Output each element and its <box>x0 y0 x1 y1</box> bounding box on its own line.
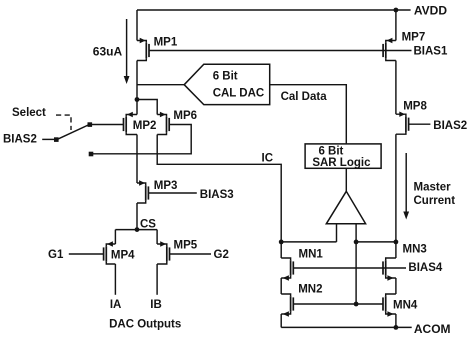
label G2 <box>214 249 229 261</box>
transistor MN1 <box>281 258 293 281</box>
svg-text:BIAS1: BIAS1 <box>414 46 448 58</box>
wire CS to MP5 source <box>156 230 158 244</box>
label Cal Data <box>281 91 328 103</box>
svg-text:CAL DAC: CAL DAC <box>213 87 265 99</box>
node MN2/MN4 gate junction <box>354 302 359 307</box>
wire IB output <box>156 264 158 295</box>
svg-text:MP8: MP8 <box>403 100 427 112</box>
wire MP6 drain / IC line <box>157 135 281 242</box>
svg-text:BIAS2: BIAS2 <box>433 120 467 132</box>
svg-text:MP5: MP5 <box>174 240 198 252</box>
svg-text:G2: G2 <box>214 249 229 261</box>
label MN4 <box>393 299 418 311</box>
wire MP8 drain to MN3 drain <box>395 134 397 242</box>
wire MN3 drain <box>395 242 397 258</box>
wire MN1 drain <box>280 242 282 258</box>
wire MP1 drain <box>136 61 138 100</box>
wire MN1 source to MN2 drain <box>280 278 282 294</box>
svg-text:ACOM: ACOM <box>414 322 451 336</box>
label BIAS2 left <box>3 133 37 145</box>
label Master <box>414 182 452 194</box>
wire MP7 drain to MP8 source <box>395 61 397 115</box>
node master current junction <box>394 240 399 245</box>
svg-text:BIAS4: BIAS4 <box>408 262 442 274</box>
label 63uA <box>93 44 123 58</box>
transistor MP5 <box>157 241 169 264</box>
transistor MP7 <box>383 38 396 61</box>
svg-text:IC: IC <box>262 153 274 165</box>
wire BIAS2 stub <box>42 138 56 140</box>
svg-text:MN4: MN4 <box>393 299 418 311</box>
svg-text:Cal Data: Cal Data <box>281 91 328 103</box>
label BIAS4 <box>408 262 442 274</box>
wire comparator plus to master node <box>356 241 396 243</box>
block 6 Bit CAL DAC <box>184 64 270 104</box>
switch arm <box>56 125 88 140</box>
svg-text:MP2: MP2 <box>133 120 157 132</box>
wire MP7 source to AVDD <box>395 10 397 41</box>
wire center vertical to MN2/MN4 gates <box>355 242 357 304</box>
label CS <box>140 218 156 230</box>
wire AVDD top rail <box>137 9 411 11</box>
svg-text:CS: CS <box>140 218 156 230</box>
wire SAR Logic to comparator apex <box>345 168 347 191</box>
wire MN2/MN4 gate line <box>294 303 383 305</box>
label MP7 <box>402 32 426 44</box>
svg-text:6 Bit: 6 Bit <box>318 146 343 158</box>
label 6 Bit (CAL DAC) <box>213 71 238 83</box>
wire comparator plus input stub <box>355 224 357 242</box>
label BIAS3 <box>200 189 234 201</box>
wire MP2 source stub <box>136 100 138 115</box>
wire MN4 source to ACOM rail <box>395 314 397 327</box>
op-amp comparator U1 <box>326 191 365 224</box>
svg-text:6 Bit: 6 Bit <box>213 71 238 83</box>
label Select <box>12 107 46 119</box>
wire source tie to MP6 <box>137 100 157 115</box>
label MN2 <box>298 284 322 296</box>
transistor MN2 <box>281 294 293 317</box>
switch pole lower-left <box>54 137 59 142</box>
wire BIAS4 gate line MN1 to MN3 <box>294 267 406 269</box>
block 6 Bit SAR Logic <box>305 144 381 168</box>
svg-text:DAC Outputs: DAC Outputs <box>109 319 181 331</box>
label ACOM <box>414 322 451 336</box>
wire MN3 source to MN4 drain <box>395 278 397 294</box>
label MP8 <box>403 100 427 112</box>
wire CS rail <box>115 229 157 231</box>
svg-text:MP1: MP1 <box>154 36 178 48</box>
transistor MN3 <box>383 258 396 281</box>
label MP4 <box>111 249 135 261</box>
svg-text:63uA: 63uA <box>93 44 123 58</box>
wire comparator minus input stub <box>336 224 338 242</box>
label SAR Logic <box>312 157 371 169</box>
svg-text:AVDD: AVDD <box>414 4 447 18</box>
wire ACOM bottom rail <box>281 326 412 328</box>
label MP2 <box>133 120 157 132</box>
svg-text:MP7: MP7 <box>402 32 426 44</box>
svg-text:MN1: MN1 <box>299 248 324 260</box>
wire MP5 gate to G2 <box>170 253 211 255</box>
wire MP3 drain to CS <box>136 203 138 230</box>
label MP1 <box>154 36 178 48</box>
svg-text:SAR Logic: SAR Logic <box>312 157 371 169</box>
switch pole lower-right <box>89 152 94 157</box>
label G1 <box>48 249 64 261</box>
wire MP1 drain node to CAL DAC apex <box>137 84 184 86</box>
wire MN2 source to ground rail <box>280 314 282 327</box>
svg-text:MP3: MP3 <box>154 180 178 192</box>
wire comparator minus to IC node <box>281 241 336 243</box>
wire MP1 source from AVDD rail <box>136 10 138 41</box>
label MN3 <box>403 244 427 256</box>
wire MP3 gate stub <box>149 192 197 194</box>
label BIAS2 right <box>433 120 467 132</box>
label IC <box>262 153 274 165</box>
svg-text:MN3: MN3 <box>403 244 427 256</box>
svg-text:IB: IB <box>150 299 162 311</box>
current arrow 63uA <box>124 19 130 84</box>
transistor MP4 <box>104 241 116 264</box>
label 6 Bit (SAR) <box>318 146 343 158</box>
switch pole upper <box>88 122 93 127</box>
svg-text:MN2: MN2 <box>298 284 322 296</box>
svg-text:G1: G1 <box>48 249 64 261</box>
label MN1 <box>299 248 324 260</box>
wire MP2 drain to MP3 <box>136 135 138 184</box>
wire Cal Data bus to SAR Logic <box>270 85 347 144</box>
transistor MP2 <box>124 112 138 135</box>
label BIAS1 <box>414 46 448 58</box>
transistor MP3 <box>137 180 148 203</box>
wire IA output <box>114 264 116 295</box>
transistor MP1 <box>137 38 149 61</box>
label Current <box>414 195 456 207</box>
svg-text:Master: Master <box>414 182 452 194</box>
label MP5 <box>174 240 198 252</box>
transistor MP6 <box>157 112 169 135</box>
svg-text:Select: Select <box>12 107 46 119</box>
node CS junction <box>135 227 140 232</box>
wire MP6 gate loop to switch lower pole <box>90 125 191 154</box>
svg-text:IA: IA <box>110 299 122 311</box>
svg-text:BIAS3: BIAS3 <box>200 189 234 201</box>
dashed select indicator <box>56 115 71 130</box>
node MP1 drain junction <box>135 97 140 102</box>
current arrow Master Current <box>403 153 409 220</box>
svg-text:BIAS2: BIAS2 <box>3 133 37 145</box>
node comparator plus junction <box>354 240 359 245</box>
label AVDD <box>414 4 447 18</box>
svg-text:Current: Current <box>414 195 456 207</box>
label CAL DAC <box>213 87 265 99</box>
label DAC Outputs <box>109 319 181 331</box>
wire MP8 gate stub <box>409 123 431 125</box>
transistor MP8 <box>396 112 409 135</box>
label MP3 <box>154 180 178 192</box>
transistor MN4 <box>383 294 396 317</box>
wire switch to MP2 gate <box>89 124 123 126</box>
wire G1 to MP4 gate <box>69 253 104 255</box>
label IB <box>150 299 162 311</box>
node IC / MN1 drain junction <box>279 240 284 245</box>
node ACOM junction <box>394 325 399 330</box>
wire CS to MP4 source <box>114 230 116 244</box>
node AVDD junction <box>394 8 399 13</box>
label MP6 <box>173 110 197 122</box>
svg-text:MP4: MP4 <box>111 249 135 261</box>
label IA <box>110 299 122 311</box>
wire BIAS1 gate line MP1 to MP7 <box>149 50 411 52</box>
svg-text:MP6: MP6 <box>173 110 197 122</box>
